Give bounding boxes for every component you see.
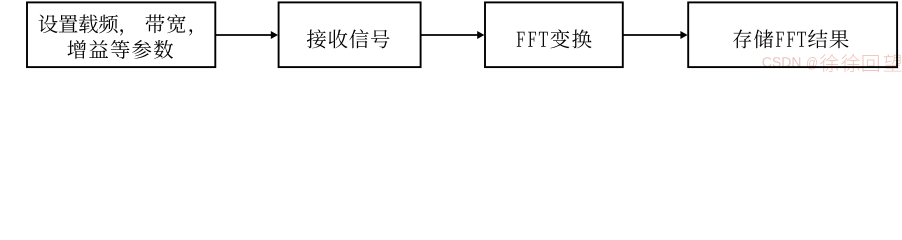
box1 设置载频带宽增益等参数 rect: [27, 2, 215, 67]
box4 存储FFT结果 rect: [688, 2, 897, 67]
text box1 line2 增益等参数: [68, 40, 174, 59]
arrow 3 shaft: [623, 34, 682, 36]
arrow 2 shaft: [421, 34, 479, 36]
watermark text 徐徐回望: [820, 54, 901, 72]
box3 FFT变换 rect: [485, 2, 623, 67]
arrow 2 head: [477, 31, 484, 39]
watermark text CSDN @: [763, 57, 817, 70]
arrow 1 head: [271, 31, 278, 39]
text box3 FFT变换: [517, 29, 592, 48]
arrow 3 head: [680, 31, 687, 39]
text box4 存储FFT结果: [733, 30, 849, 49]
text box1 line1 设置载频，带宽，: [39, 14, 193, 35]
arrow 1 shaft: [215, 34, 272, 36]
box2 接收信号 rect: [279, 2, 421, 67]
text box2 接收信号: [307, 29, 390, 48]
